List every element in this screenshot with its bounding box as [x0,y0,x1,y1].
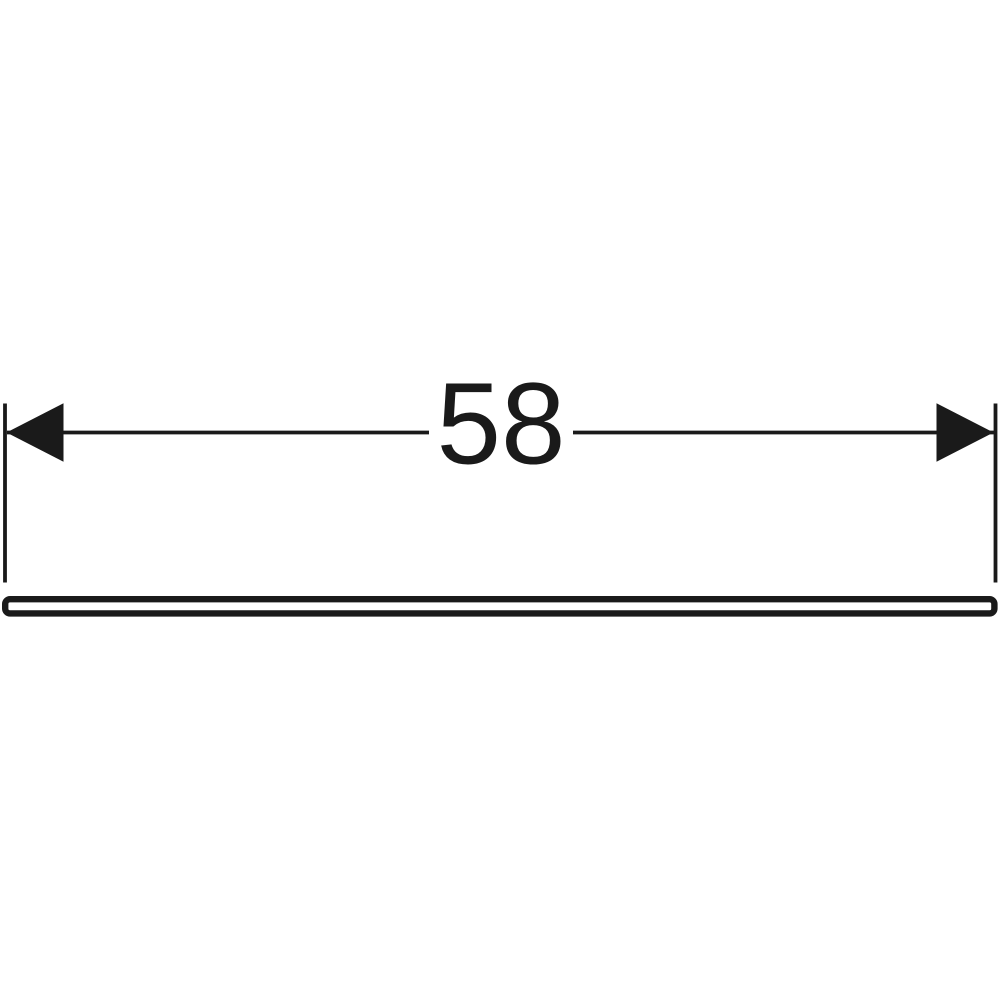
svg-text:58: 58 [436,358,565,488]
extension line left [3,404,7,583]
arrowhead right [937,403,994,461]
arrowhead left [7,403,64,461]
dimension line right segment [573,431,994,435]
product profile bar [5,599,994,613]
extension line right [994,404,998,583]
dimension line left segment [7,431,429,435]
